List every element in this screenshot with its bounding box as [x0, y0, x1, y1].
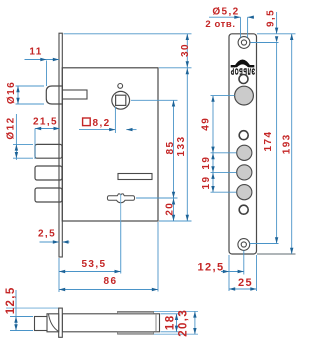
svg-text:21,5: 21,5: [33, 117, 58, 128]
dim 20,3 (total thickness with cover): [177, 309, 196, 337]
svg-text:20: 20: [164, 202, 175, 216]
svg-text:53,5: 53,5: [81, 259, 106, 270]
cover ridge bottom: [118, 332, 154, 334]
dim 53,5 (plate to key axis): [59, 258, 121, 292]
dim 20 (keyhole to body bottom): [164, 198, 175, 221]
dim 18 (body thickness): [161, 314, 181, 332]
cover ridge top: [118, 311, 154, 313]
brand logo (upside down): [230, 60, 255, 77]
extension line along cover top: [6, 307, 59, 309]
keyhole slot: [107, 194, 134, 203]
faceplate (top view section): [59, 308, 63, 337]
svg-text:2,5: 2,5: [38, 229, 56, 240]
latch opening (large grey): [235, 86, 254, 105]
svg-text:12,5: 12,5: [197, 262, 224, 274]
dim 2,5 (faceplate thickness): [38, 229, 70, 244]
deadbolt 3: [35, 188, 62, 202]
dim 49 and 19/19 (hole spacings, left of plate): [201, 96, 237, 193]
dim 86 (body depth): [59, 222, 158, 292]
dim 9,5 (top edge to screw center): [251, 9, 296, 43]
dim 25 (plate width): [229, 255, 257, 291]
latch bevel curve: [49, 314, 59, 331]
bottom screw hole: [238, 239, 250, 251]
latch nose (top view): [35, 317, 48, 331]
body slab (top view): [62, 314, 159, 332]
svg-text:Ø16: Ø16: [6, 81, 17, 104]
small pin hole above spindle: [118, 84, 123, 89]
extension line along cover bottom: [154, 333, 199, 335]
faceplate (side view, thin vertical plate): [59, 33, 62, 257]
svg-text:11: 11: [29, 47, 42, 58]
svg-text:12,5: 12,5: [5, 286, 17, 314]
svg-text:18: 18: [165, 315, 177, 331]
dim 12,5 (latch width, bottom view): [5, 286, 33, 330]
svg-text:20,3: 20,3: [177, 309, 189, 337]
bolt hole 2 (grey): [237, 165, 252, 180]
deadbolt 1: [35, 144, 62, 158]
svg-text:9,5: 9,5: [265, 9, 276, 27]
centerline of spindle/keyhole (vertical): [120, 107, 122, 274]
dim 133 (body height): [159, 68, 192, 221]
dim Ø12 (bolt diameter): [6, 114, 34, 160]
svg-text:86: 86: [104, 276, 118, 287]
dim 21,5 (bolt throw): [33, 117, 60, 160]
svg-text:133: 133: [176, 136, 187, 157]
bolt hole 1 (grey): [237, 145, 252, 160]
dim Ø16 (latch diameter): [6, 81, 44, 104]
svg-text:19: 19: [201, 176, 212, 190]
spindle hub circle: [112, 91, 130, 109]
dim 193 (plate length): [257, 34, 296, 254]
stop rectangle inside body: [118, 174, 152, 180]
svg-text:Ø12: Ø12: [6, 116, 17, 139]
svg-text:193: 193: [282, 133, 293, 154]
small hole below bolts: [239, 205, 248, 214]
svg-text:25: 25: [238, 277, 253, 289]
latch beveled head (top view): [47, 314, 59, 332]
dim Ø5,2 2 holes (screw holes callout): [205, 7, 254, 38]
svg-text:174: 174: [263, 131, 274, 152]
square spindle hole 8.2: [116, 95, 126, 105]
svg-text:Ø5,2: Ø5,2: [212, 7, 239, 18]
svg-text:8,2: 8,2: [93, 118, 111, 129]
svg-text:2 отв.: 2 отв.: [205, 19, 235, 30]
small hole below logo: [239, 75, 248, 84]
dim 30 (plate above body): [64, 34, 192, 68]
dim 174 (screw hole spacing): [250, 36, 279, 243]
end cap line: [155, 314, 157, 332]
dim 11 (latch protrusion): [25, 47, 60, 87]
small hole: [239, 131, 248, 140]
svg-text:85: 85: [165, 141, 176, 155]
latch nose (protruding): [46, 86, 62, 104]
svg-text:19: 19: [201, 156, 212, 170]
deadbolt 2: [35, 166, 62, 180]
dim square 8,2 (spindle hole): [79, 107, 137, 133]
lock body outline: [62, 68, 158, 221]
top screw hole: [238, 37, 250, 49]
svg-text:30: 30: [180, 43, 191, 57]
dim 12,5 (plate edge to screw axis): [197, 251, 243, 292]
bolt hole 3 (grey): [237, 185, 252, 200]
faceplate outline: [229, 34, 257, 254]
svg-text:49: 49: [201, 117, 212, 131]
dim 85 (spindle to keyhole): [131, 100, 178, 198]
latch bar inside body: [62, 90, 87, 99]
